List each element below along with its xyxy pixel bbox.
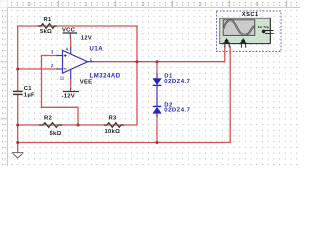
svg-text:U1A: U1A [90, 46, 104, 52]
svg-text:0: 0 [27, 2, 30, 8]
svg-text:11: 11 [60, 75, 65, 80]
svg-text:02DZ4.7: 02DZ4.7 [164, 107, 190, 113]
svg-text:R3: R3 [109, 116, 118, 122]
svg-text:-12V: -12V [62, 94, 75, 100]
svg-text:C1: C1 [24, 86, 33, 92]
svg-text:XSC1: XSC1 [242, 12, 259, 18]
svg-text:4: 4 [255, 2, 258, 8]
svg-text:5kΩ: 5kΩ [50, 131, 62, 137]
svg-text:R2: R2 [44, 116, 53, 122]
svg-text:1: 1 [84, 2, 87, 8]
svg-text:LM324AD: LM324AD [90, 74, 121, 80]
svg-text:VCC: VCC [62, 28, 76, 34]
svg-text:3: 3 [198, 2, 201, 8]
svg-text:5kΩ: 5kΩ [40, 29, 52, 35]
svg-text:VEE: VEE [80, 79, 93, 85]
svg-text:Ext Trig: Ext Trig [258, 25, 269, 29]
svg-text:2: 2 [141, 2, 144, 8]
svg-text:1µF: 1µF [24, 92, 35, 98]
svg-text:R1: R1 [44, 17, 53, 23]
svg-text:02DZ4.7: 02DZ4.7 [164, 79, 190, 85]
svg-text:12V: 12V [81, 35, 92, 41]
svg-text:10kΩ: 10kΩ [105, 129, 121, 135]
